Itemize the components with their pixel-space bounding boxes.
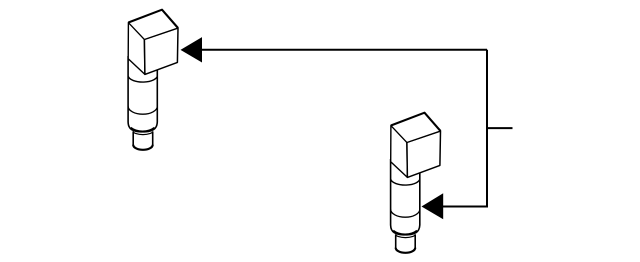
- part 2: washer nozzle (lower right): [391, 113, 441, 253]
- leader line: middle tick: [487, 127, 513, 129]
- part 1: washer nozzle (upper left): [128, 10, 178, 150]
- arrowhead 1 (points to part 1): [181, 37, 203, 62]
- leader line: top horizontal: [201, 49, 487, 51]
- leader line: right vertical: [486, 50, 488, 207]
- arrowhead 2 (points to part 2): [422, 193, 444, 219]
- leader line: bottom horizontal: [442, 206, 488, 208]
